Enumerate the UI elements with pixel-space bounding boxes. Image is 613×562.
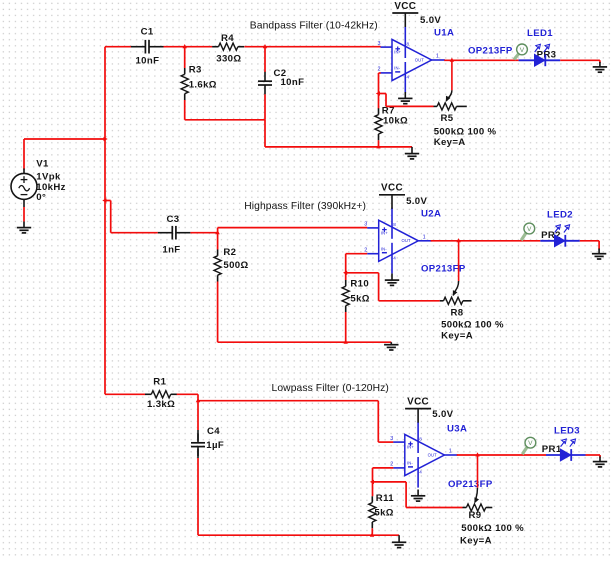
wire lowpass ground rail bbox=[198, 534, 399, 536]
svg-text:4: 4 bbox=[393, 255, 396, 260]
LED LED3 bbox=[546, 439, 586, 461]
wire C1 to R3 node bbox=[164, 46, 185, 48]
potentiometer R9 bbox=[463, 504, 493, 511]
resistor R10 bbox=[342, 273, 349, 342]
svg-text:5kΩ: 5kΩ bbox=[350, 294, 369, 305]
svg-text:5kΩ: 5kΩ bbox=[374, 508, 393, 519]
wire R1 to C4 node bbox=[177, 394, 198, 400]
svg-text:PR1: PR1 bbox=[542, 444, 562, 455]
label V1 bbox=[36, 159, 65, 204]
wiper arrow R8 bbox=[453, 241, 459, 296]
capacitor C3 bbox=[158, 226, 191, 240]
wire R4 to C2 node bbox=[244, 46, 265, 48]
svg-text:R8: R8 bbox=[451, 308, 464, 319]
wire lowpass input bbox=[105, 393, 145, 395]
svg-text:LED3: LED3 bbox=[554, 425, 580, 436]
svg-text:OUT: OUT bbox=[428, 452, 437, 457]
node C bbox=[215, 230, 219, 234]
node U2A output junction bbox=[456, 238, 460, 242]
wire feedback to R5 bbox=[379, 94, 434, 107]
label R3 bbox=[189, 64, 217, 90]
probe PR2 bbox=[521, 223, 534, 240]
svg-text:U3A: U3A bbox=[447, 423, 467, 434]
svg-text:1: 1 bbox=[423, 235, 426, 241]
label R1 bbox=[147, 377, 175, 411]
ground highpass rail bbox=[384, 342, 398, 350]
svg-text:2: 2 bbox=[390, 462, 393, 468]
svg-text:R5: R5 bbox=[441, 113, 454, 124]
node feedback tap U1A bbox=[376, 91, 380, 95]
wire bandpass input bbox=[105, 46, 131, 48]
svg-text:C3: C3 bbox=[167, 214, 180, 225]
wire bandpass ground rail bbox=[265, 146, 412, 148]
wire feedback to R8 bbox=[346, 273, 440, 301]
potentiometer R8 bbox=[440, 297, 472, 304]
ground lowpass rail bbox=[392, 535, 406, 547]
svg-text:VCC: VCC bbox=[381, 183, 403, 194]
svg-text:1.3kΩ: 1.3kΩ bbox=[147, 399, 175, 410]
wiper arrow R9 bbox=[474, 455, 479, 503]
resistor R2 bbox=[214, 233, 221, 343]
svg-text:Bandpass Filter (10-42kHz): Bandpass Filter (10-42kHz) bbox=[250, 21, 378, 32]
svg-text:IN+: IN+ bbox=[394, 50, 401, 55]
VCC U2A bbox=[379, 183, 405, 209]
wire R2 node to U2A IN+ bbox=[218, 228, 368, 233]
capacitor C4 bbox=[191, 401, 205, 536]
wiper arrow R5 bbox=[446, 60, 452, 102]
label C1 bbox=[136, 27, 160, 67]
node R11 to rail bbox=[370, 533, 374, 537]
svg-text:4: 4 bbox=[419, 470, 422, 475]
svg-text:1nF: 1nF bbox=[162, 244, 180, 255]
svg-text:C1: C1 bbox=[141, 27, 154, 38]
ground U2A bbox=[385, 274, 399, 286]
wire LED3 to ground bbox=[586, 455, 601, 458]
svg-text:2: 2 bbox=[378, 67, 381, 73]
node A bbox=[183, 44, 187, 48]
svg-text:1: 1 bbox=[436, 54, 439, 60]
wire LED1 to ground bbox=[560, 60, 600, 63]
svg-text:10nF: 10nF bbox=[136, 55, 160, 66]
label R11 bbox=[374, 493, 394, 518]
node U3A output junction bbox=[475, 452, 479, 456]
svg-text:5.0V: 5.0V bbox=[420, 15, 441, 26]
op-amp U2A bbox=[364, 208, 432, 274]
svg-text:VCC: VCC bbox=[394, 1, 416, 12]
svg-text:IN+: IN+ bbox=[407, 445, 414, 450]
resistor R4 bbox=[212, 43, 244, 50]
svg-text:3: 3 bbox=[364, 222, 367, 228]
label R9 bbox=[460, 510, 524, 546]
ground U3A bbox=[411, 490, 425, 502]
LED LED2 bbox=[540, 225, 580, 247]
svg-text:Key=A: Key=A bbox=[441, 331, 473, 342]
svg-text:5.0V: 5.0V bbox=[406, 196, 427, 207]
svg-text:IN-: IN- bbox=[381, 247, 387, 252]
ground LED2 bbox=[592, 249, 606, 260]
svg-text:R10: R10 bbox=[350, 279, 369, 290]
LED LED1 bbox=[519, 44, 561, 66]
label R7 bbox=[382, 105, 408, 126]
label R4 bbox=[216, 33, 241, 64]
label C3 bbox=[162, 214, 180, 256]
svg-text:OUT: OUT bbox=[402, 238, 411, 243]
svg-text:C4: C4 bbox=[207, 426, 220, 437]
svg-text:10kHz: 10kHz bbox=[36, 182, 65, 193]
wire R3 node to R4 bbox=[185, 46, 213, 48]
svg-text:10nF: 10nF bbox=[281, 77, 305, 88]
op-amp U3A bbox=[390, 422, 458, 488]
node D bbox=[343, 271, 347, 275]
label C4 bbox=[206, 426, 224, 451]
node V1-bus junction bbox=[104, 137, 108, 141]
op-amp U1A bbox=[378, 27, 446, 93]
resistor R7 bbox=[375, 108, 382, 140]
resistor R1 bbox=[145, 391, 177, 398]
svg-text:VCC: VCC bbox=[407, 396, 429, 407]
wire C3 to R2 node bbox=[190, 232, 217, 234]
wire LED2 to ground bbox=[580, 241, 599, 250]
svg-text:4: 4 bbox=[407, 75, 410, 80]
svg-text:R3: R3 bbox=[189, 64, 202, 75]
svg-text:R4: R4 bbox=[221, 33, 234, 44]
wire V1 to ground bbox=[23, 207, 25, 222]
label R10 bbox=[350, 279, 369, 305]
ground LED3 bbox=[593, 457, 607, 467]
label R2 bbox=[223, 247, 248, 271]
ground V1 bbox=[17, 222, 31, 233]
svg-text:500kΩ 100 %: 500kΩ 100 % bbox=[441, 320, 504, 331]
label R5 bbox=[434, 113, 497, 148]
node E bbox=[196, 398, 200, 402]
svg-text:500Ω: 500Ω bbox=[223, 260, 248, 271]
probe PR1 bbox=[522, 437, 536, 454]
svg-text:OP213FP: OP213FP bbox=[468, 46, 513, 57]
node highpass tap bbox=[102, 198, 106, 202]
svg-text:1Vpk: 1Vpk bbox=[36, 171, 61, 182]
wire R7 bottom to rail bbox=[378, 140, 380, 147]
wire U1A output bbox=[444, 59, 518, 61]
svg-text:R9: R9 bbox=[469, 510, 482, 521]
VCC U1A bbox=[392, 1, 418, 27]
svg-text:1µF: 1µF bbox=[206, 440, 224, 451]
svg-text:8: 8 bbox=[393, 222, 396, 227]
ground U1A bbox=[398, 92, 412, 104]
wire highpass input bbox=[105, 201, 158, 233]
svg-text:3: 3 bbox=[390, 436, 393, 442]
wire U2A IN- to R10 bbox=[346, 254, 368, 273]
svg-text:Lowpass Filter (0-120Hz): Lowpass Filter (0-120Hz) bbox=[272, 383, 389, 394]
svg-text:R11: R11 bbox=[376, 493, 394, 504]
VCC U3A bbox=[405, 396, 431, 422]
wire feedback to R9 bbox=[373, 482, 463, 508]
node R10 to rail bbox=[344, 340, 348, 344]
svg-text:IN+: IN+ bbox=[381, 231, 388, 236]
svg-text:V: V bbox=[520, 47, 525, 54]
ground LED1 bbox=[593, 62, 607, 72]
label R8 bbox=[441, 308, 504, 342]
label C2 bbox=[274, 68, 305, 88]
wire highpass ground rail bbox=[218, 341, 392, 343]
probe PR3 bbox=[514, 44, 527, 60]
svg-text:OUT: OUT bbox=[415, 57, 424, 62]
svg-text:3: 3 bbox=[378, 41, 381, 47]
wire U3A IN- to R11 bbox=[373, 468, 394, 482]
ground bandpass rail bbox=[405, 147, 419, 159]
node R7 to rail bbox=[376, 144, 380, 148]
svg-text:500kΩ 100 %: 500kΩ 100 % bbox=[434, 126, 497, 137]
wire U2A output bbox=[431, 240, 541, 242]
svg-text:1: 1 bbox=[449, 449, 452, 455]
svg-text:Key=A: Key=A bbox=[434, 137, 466, 148]
svg-text:0°: 0° bbox=[36, 192, 46, 203]
potentiometer R5 bbox=[434, 103, 467, 110]
svg-text:V: V bbox=[527, 226, 532, 233]
node U1A output junction bbox=[450, 58, 454, 62]
node F bbox=[370, 480, 374, 484]
svg-text:Highpass Filter (390kHz+): Highpass Filter (390kHz+) bbox=[244, 201, 366, 212]
capacitor C1 bbox=[131, 40, 164, 54]
svg-text:5.0V: 5.0V bbox=[432, 409, 453, 420]
svg-text:1.6kΩ: 1.6kΩ bbox=[189, 80, 217, 91]
svg-text:8: 8 bbox=[419, 436, 422, 441]
wire U3A output bbox=[457, 454, 546, 456]
svg-text:500kΩ 100 %: 500kΩ 100 % bbox=[461, 523, 524, 534]
resistor R11 bbox=[369, 482, 376, 535]
svg-text:LED2: LED2 bbox=[547, 210, 573, 221]
svg-text:IN-: IN- bbox=[407, 461, 413, 466]
svg-text:LED1: LED1 bbox=[527, 28, 553, 39]
svg-text:R2: R2 bbox=[223, 247, 236, 258]
node B bbox=[263, 44, 267, 48]
svg-text:IN-: IN- bbox=[394, 66, 400, 71]
wire C2 node to op-amp IN+ bbox=[265, 46, 381, 48]
wire U1A IN- to R7 bbox=[379, 73, 381, 109]
svg-text:V1: V1 bbox=[36, 159, 49, 170]
voltage source V1 bbox=[11, 169, 37, 208]
svg-text:OP213FP: OP213FP bbox=[448, 479, 493, 490]
capacitor C2 bbox=[258, 47, 272, 120]
svg-text:U1A: U1A bbox=[434, 28, 454, 39]
svg-text:330Ω: 330Ω bbox=[216, 53, 241, 64]
svg-text:10kΩ: 10kΩ bbox=[383, 115, 408, 126]
wire V1 to bus bbox=[24, 139, 105, 170]
svg-text:V: V bbox=[528, 440, 533, 447]
svg-text:8: 8 bbox=[407, 41, 410, 46]
wire C4 node to U3A IN+ bbox=[198, 401, 393, 442]
svg-text:R1: R1 bbox=[153, 377, 166, 388]
resistor R3 bbox=[181, 47, 188, 120]
svg-text:U2A: U2A bbox=[421, 208, 441, 219]
svg-text:2: 2 bbox=[364, 248, 367, 254]
wire input bus bbox=[104, 47, 106, 395]
wire R3/C2 bottom bbox=[185, 120, 265, 147]
svg-text:Key=A: Key=A bbox=[460, 535, 492, 546]
